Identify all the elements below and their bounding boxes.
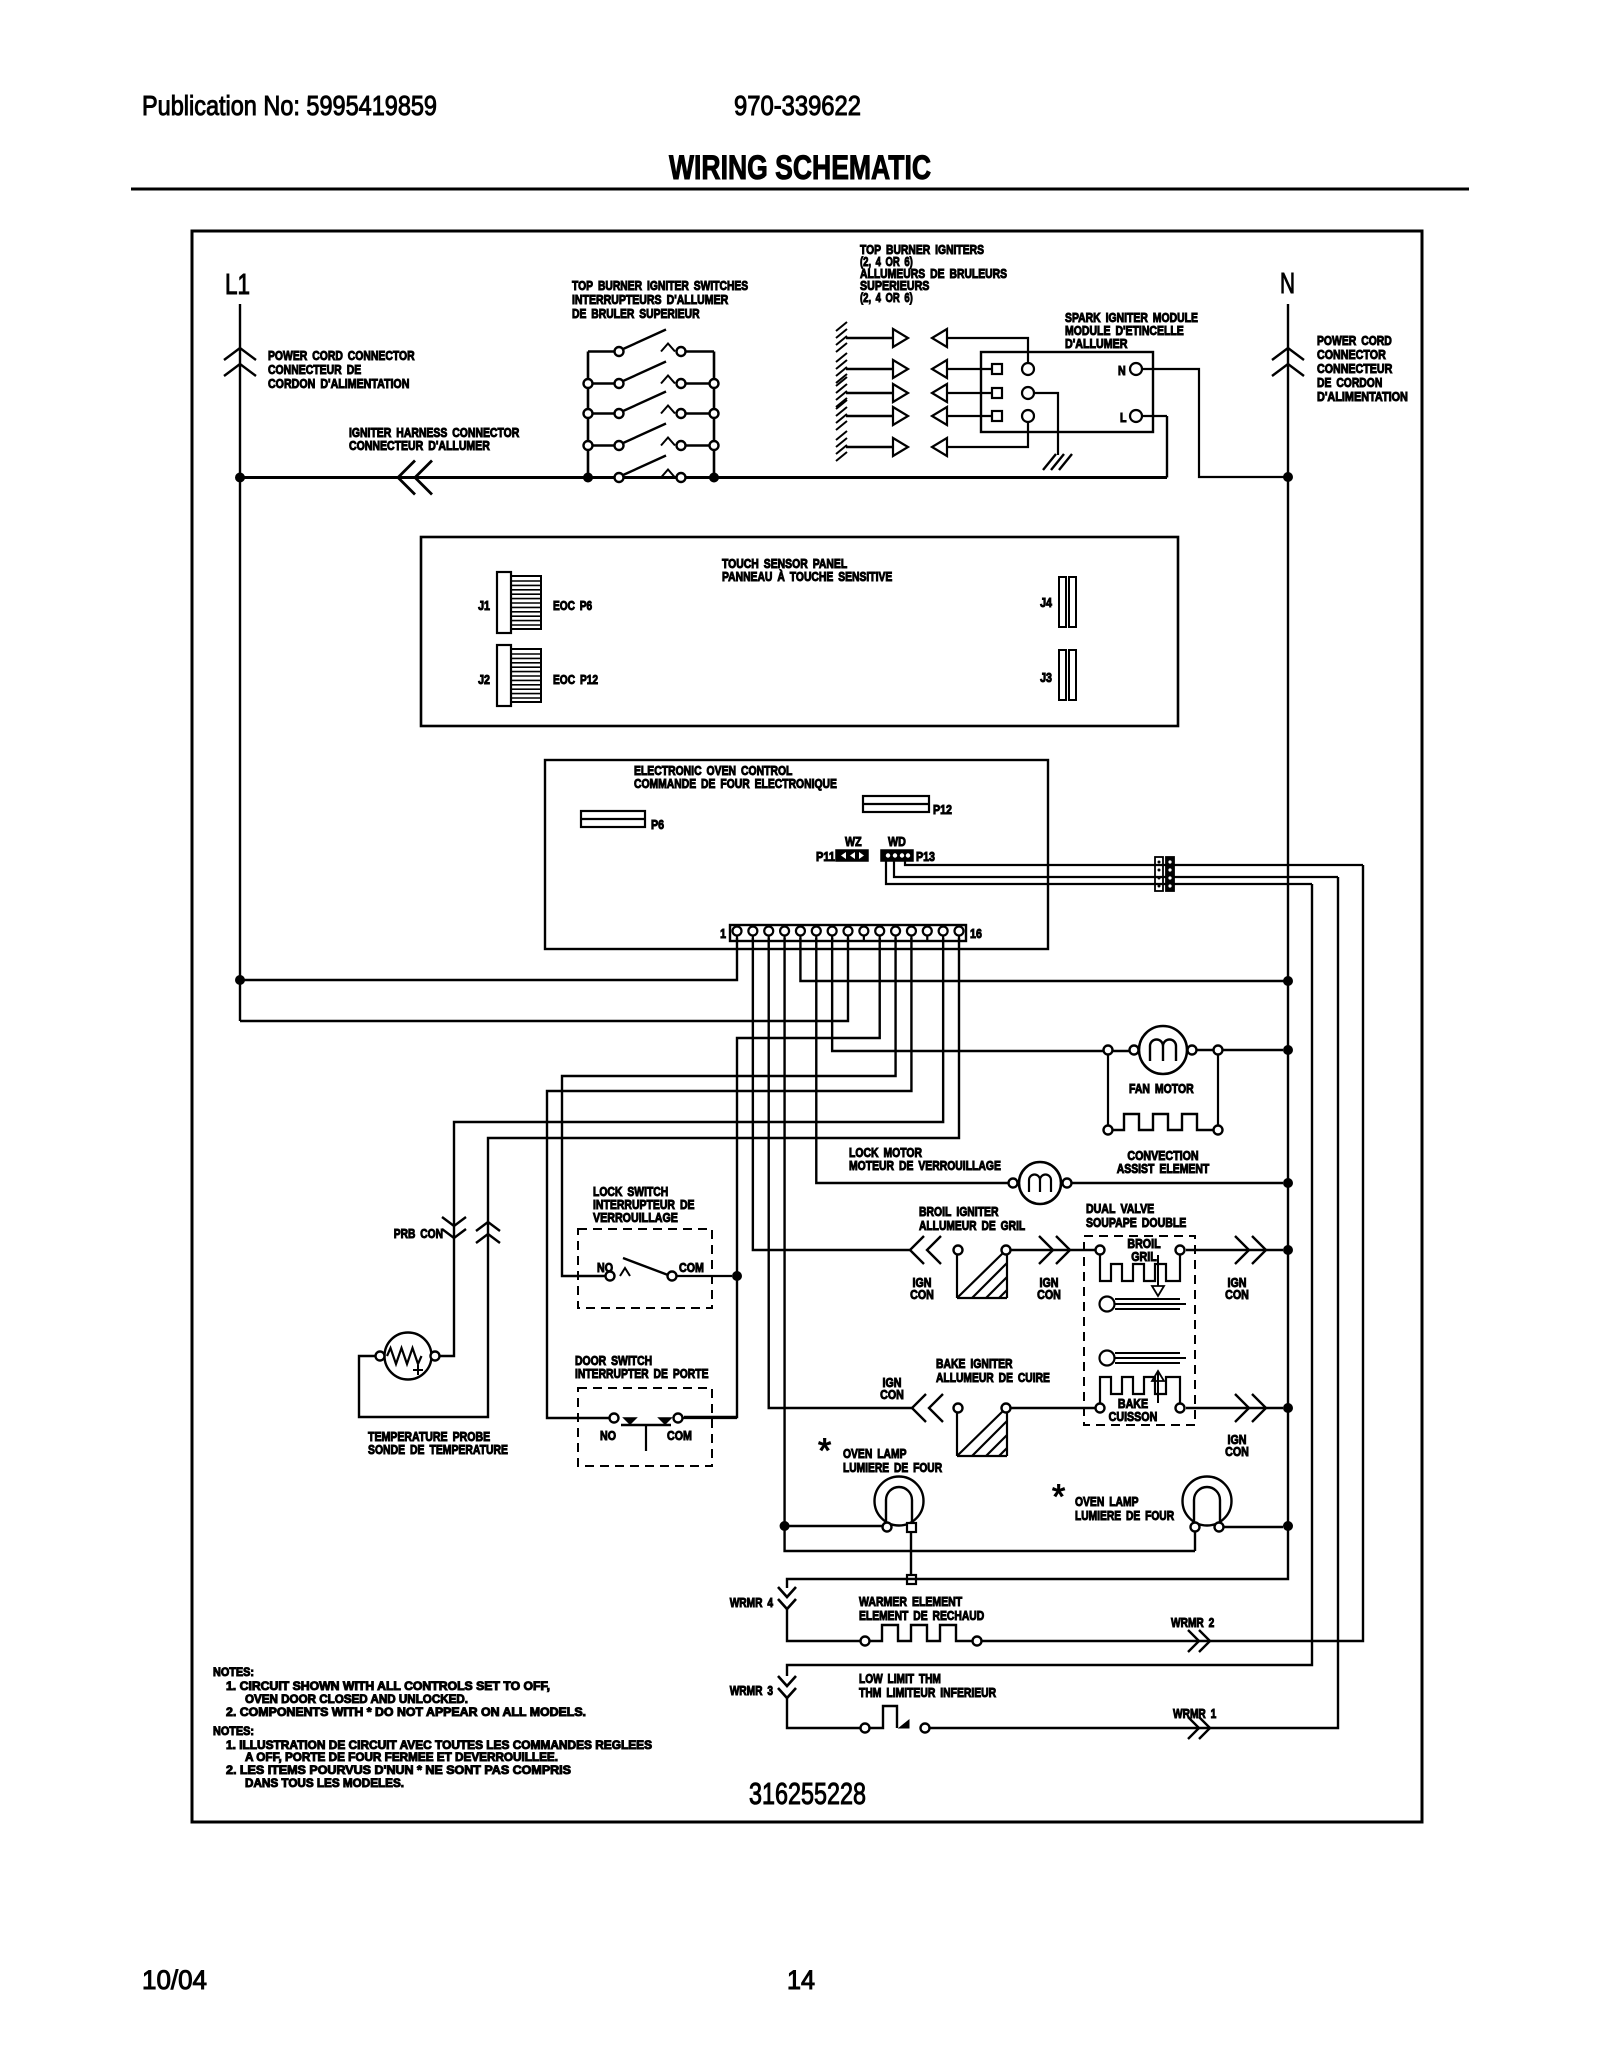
connector J3	[1059, 650, 1076, 700]
wire P13 pin to WRMR1 drop	[894, 861, 1338, 877]
low limit thermostat TH1	[861, 1724, 870, 1733]
broil solenoid	[1100, 1297, 1115, 1312]
wire pin14 to temperature probe	[440, 938, 943, 1356]
svg-text:POWER CORD CONNECTOR: POWER CORD CONNECTOR	[268, 348, 415, 363]
igniter harness connector chevrons	[398, 461, 415, 495]
oven lamp DS1	[875, 1477, 924, 1526]
svg-text:10/04: 10/04	[142, 1965, 207, 1995]
wire module N terminal to N line	[1142, 369, 1284, 477]
wire igniter harness bus L1 to L terminal	[240, 476, 1167, 479]
svg-text:COMMANDE DE FOUR ELECTRONIQ: COMMANDE DE FOUR ELECTRONIQUE	[634, 776, 837, 791]
fan motor M1	[1139, 1026, 1187, 1074]
probe connector chevrons PRB CON	[442, 1217, 466, 1226]
terminal strip pin 12	[907, 927, 916, 936]
svg-text:CON: CON	[1225, 1444, 1249, 1459]
broil igniter harness chevrons left	[910, 1236, 924, 1264]
svg-text:16: 16	[970, 926, 982, 941]
junction broil N	[1283, 1245, 1293, 1255]
svg-text:DE CORDON: DE CORDON	[1317, 375, 1382, 390]
junction lock COM on sense wire	[732, 1271, 742, 1281]
terminal strip pin 7	[828, 927, 837, 936]
module terminal square 1	[992, 364, 1002, 374]
convection assist element R1	[1104, 1126, 1113, 1135]
terminal strip pin 3	[764, 927, 773, 936]
junction N harness	[1283, 472, 1293, 482]
top burner igniter electrode E3	[836, 377, 847, 386]
top burner igniter electrode E5	[836, 431, 847, 440]
WRMR4 chevrons	[778, 1587, 796, 1597]
svg-text:CONNECTOR: CONNECTOR	[1317, 347, 1386, 362]
wire P13 pin to WRMR2 drop	[905, 861, 1363, 865]
bake igniter harness chevrons	[912, 1394, 926, 1422]
igniter return arrow A4	[932, 407, 947, 425]
svg-text:J3: J3	[1040, 670, 1052, 685]
svg-text:WRMR 2: WRMR 2	[1171, 1615, 1214, 1630]
svg-text:WIRING SCHEMATIC: WIRING SCHEMATIC	[669, 149, 931, 187]
svg-text:OVEN LAMP: OVEN LAMP	[1075, 1494, 1139, 1509]
svg-text:VERROUILLAGE: VERROUILLAGE	[593, 1210, 678, 1225]
wire L1 vertical	[239, 304, 241, 1021]
svg-text:WD: WD	[888, 834, 906, 849]
terminal strip pin 1	[733, 927, 742, 936]
terminal strip pin 15	[954, 927, 963, 936]
svg-text:N: N	[1280, 268, 1295, 300]
svg-text:CONNECTEUR DE: CONNECTEUR DE	[268, 362, 361, 377]
module terminal square 2	[992, 388, 1002, 398]
svg-text:P12: P12	[933, 802, 952, 817]
igniter switch S1	[588, 350, 614, 352]
temperature probe RT1	[385, 1333, 432, 1380]
svg-text:*: *	[1052, 1478, 1065, 1516]
svg-text:2. LES ITEMS POURVUS D'NUN * N: 2. LES ITEMS POURVUS D'NUN * NE SONT PAS…	[226, 1763, 571, 1777]
svg-text:Publication No: 5995419859: Publication No: 5995419859	[142, 90, 437, 121]
connector J4	[1059, 577, 1076, 627]
schematic border frame	[192, 231, 1422, 1822]
wire pin1 to L1 bus	[240, 938, 737, 980]
wire pin10 to lock-door sense	[684, 938, 880, 1417]
svg-text:NOTES:: NOTES:	[213, 1724, 254, 1738]
wire lamp2 to N	[1224, 1526, 1283, 1528]
junction pin4 lamp feed	[780, 1521, 790, 1531]
svg-text:1: 1	[720, 926, 726, 941]
svg-text:J1: J1	[478, 598, 490, 613]
wire pin3 to bake igniter row	[769, 938, 912, 1408]
svg-text:CUISSON: CUISSON	[1109, 1409, 1158, 1424]
connector P12	[863, 796, 929, 812]
top burner igniter electrode E2	[836, 353, 847, 362]
terminal strip pin 2	[748, 927, 757, 936]
broil chevrons mid	[1039, 1236, 1053, 1264]
bake igniter IG2	[954, 1404, 963, 1413]
top burner igniter electrode E4	[836, 400, 847, 409]
module terminal circle 3	[1022, 410, 1034, 422]
power cord connector N chevrons	[1272, 348, 1304, 360]
connector WD P13	[881, 850, 913, 861]
svg-text:EOC P6: EOC P6	[553, 598, 592, 613]
svg-text:EOC P12: EOC P12	[553, 672, 598, 687]
junction switch rail right on bus	[709, 473, 719, 483]
power cord connector L1 chevrons	[224, 348, 256, 360]
svg-text:BAKE IGNITER: BAKE IGNITER	[936, 1356, 1013, 1371]
bake valve element	[1096, 1404, 1105, 1413]
electronic oven control box	[545, 760, 1048, 949]
svg-text:L: L	[1120, 410, 1127, 425]
wire WRMR4 to warmer element	[787, 1608, 860, 1641]
wire pin15 to temperature probe return	[359, 938, 959, 1417]
svg-text:WRMR 1: WRMR 1	[1173, 1706, 1216, 1721]
svg-text:COM: COM	[679, 1260, 704, 1275]
module terminal square 3	[992, 411, 1002, 421]
svg-text:CON: CON	[910, 1287, 934, 1302]
wire pin4 to oven lamps	[785, 938, 1195, 1551]
wire broil valve to N	[1186, 1249, 1283, 1251]
svg-text:NOTES:: NOTES:	[213, 1665, 254, 1679]
terminal strip pin 11	[891, 927, 900, 936]
touch sensor panel box	[421, 537, 1178, 726]
igniter switch S2	[588, 382, 614, 384]
broil valve flow arrow	[1157, 1255, 1159, 1286]
svg-text:CON: CON	[880, 1387, 904, 1402]
svg-text:P13: P13	[916, 849, 935, 864]
WRMR2 chevrons	[1188, 1630, 1199, 1652]
module N terminal	[1130, 363, 1142, 375]
wire module L terminal stub	[1142, 415, 1167, 417]
svg-text:NO: NO	[600, 1428, 616, 1443]
svg-text:OVEN LAMP: OVEN LAMP	[843, 1446, 907, 1461]
wire igniter row5 to module circle3	[947, 423, 1028, 447]
wire igniter row1 to module circle1	[947, 338, 1028, 362]
module L terminal	[1130, 410, 1142, 422]
top burner igniter electrode E1	[836, 322, 847, 331]
junction L1 bus A	[235, 975, 245, 985]
junction bake N	[1283, 1403, 1293, 1413]
wire broil igniter to valve	[1011, 1249, 1095, 1251]
wire pin8 to L1 bus B	[239, 1020, 241, 1022]
svg-text:SOUPAPE DOUBLE: SOUPAPE DOUBLE	[1086, 1215, 1187, 1230]
igniter switch S4	[588, 444, 614, 446]
svg-text:PRB CON: PRB CON	[394, 1226, 443, 1241]
svg-text:MOTEUR DE VERROUILLAGE: MOTEUR DE VERROUILLAGE	[849, 1158, 1001, 1173]
terminal strip pin 5	[796, 927, 805, 936]
wire N vertical	[1287, 304, 1289, 1526]
module terminal circle 1	[1022, 363, 1034, 375]
junction convection tap right	[1214, 1046, 1223, 1055]
terminal strip pin 4	[780, 927, 789, 936]
wire lamp1 return drop	[910, 1532, 912, 1579]
switch block left rail	[587, 352, 590, 478]
wire lamp return bus	[787, 1526, 1288, 1588]
ground symbol	[1043, 454, 1056, 470]
svg-text:GRIL: GRIL	[1131, 1249, 1157, 1264]
lock switch contacts	[606, 1272, 615, 1281]
wire module circle2 to ground	[1034, 393, 1058, 455]
wire lamp1 feed	[785, 1525, 882, 1527]
svg-text:CON: CON	[1037, 1287, 1061, 1302]
wire pin7 to fan motor row	[832, 938, 1103, 1051]
lock motor M2	[1019, 1162, 1061, 1204]
wire pin11 to lock switch NO	[562, 938, 896, 1276]
svg-text:P6: P6	[651, 817, 664, 832]
EOC terminal strip	[730, 925, 966, 941]
svg-text:ALLUMEUR DE GRIL: ALLUMEUR DE GRIL	[919, 1218, 1025, 1233]
svg-text:DUAL VALVE: DUAL VALVE	[1086, 1201, 1154, 1216]
junction L1 harness bus	[235, 473, 245, 483]
igniter return arrow A1	[932, 329, 947, 347]
wire pin5 to N	[800, 938, 1288, 981]
bake chevrons right	[1235, 1394, 1249, 1422]
spark igniter module box	[981, 352, 1153, 432]
terminal strip pin 8	[843, 927, 852, 936]
terminal strip pin 6	[812, 927, 821, 936]
junction fan row N	[1283, 1045, 1293, 1055]
svg-text:LUMIERE DE FOUR: LUMIERE DE FOUR	[1075, 1508, 1175, 1523]
svg-text:A OFF, PORTE DE FOUR FERMEE ET: A OFF, PORTE DE FOUR FERMEE ET DEVERROUI…	[245, 1750, 558, 1764]
svg-text:TOP BURNER IGNITER SWITCHES: TOP BURNER IGNITER SWITCHES	[572, 278, 748, 293]
svg-text:N: N	[1118, 363, 1126, 378]
svg-text:SONDE DE TEMPERATURE: SONDE DE TEMPERATURE	[368, 1442, 508, 1457]
igniter switch S5	[588, 476, 614, 478]
junction switch rail left on bus	[583, 473, 593, 483]
igniter return arrow A3	[932, 384, 947, 402]
svg-text:CON: CON	[1225, 1287, 1249, 1302]
wire igniter row2 to module square1	[947, 368, 992, 370]
broil igniter IG1	[954, 1246, 963, 1255]
svg-text:INTERRUPTEURS D'ALLUMER: INTERRUPTEURS D'ALLUMER	[572, 292, 729, 307]
svg-text:14: 14	[787, 1965, 815, 1995]
svg-text:WARMER ELEMENT: WARMER ELEMENT	[859, 1594, 962, 1609]
wire pin12 to door switch NO	[547, 938, 911, 1418]
svg-text:DANS TOUS LES MODELES.: DANS TOUS LES MODELES.	[245, 1776, 404, 1790]
wire pin2 to broil igniter row	[753, 938, 910, 1250]
connector J2	[497, 645, 541, 706]
svg-text:LOW LIMIT THM: LOW LIMIT THM	[859, 1671, 941, 1686]
svg-text:CONNECTEUR: CONNECTEUR	[1317, 361, 1393, 376]
svg-text:OVEN DOOR CLOSED AND UNLOCKED.: OVEN DOOR CLOSED AND UNLOCKED.	[245, 1692, 468, 1706]
harness connector blocks	[1155, 857, 1163, 891]
warmer element R2	[861, 1637, 870, 1646]
svg-text:J4: J4	[1040, 595, 1053, 610]
connector P6	[581, 811, 645, 827]
svg-text:1. CIRCUIT SHOWN WITH ALL CONT: 1. CIRCUIT SHOWN WITH ALL CONTROLS SET T…	[226, 1679, 550, 1693]
terminal strip pin 13	[923, 927, 932, 936]
connector J1	[497, 572, 541, 633]
svg-text:WRMR 3: WRMR 3	[730, 1683, 773, 1698]
svg-text:D'ALIMENTATION: D'ALIMENTATION	[1317, 389, 1408, 404]
wire igniter row3 to module square2	[947, 392, 992, 394]
terminal strip pin 10	[875, 927, 884, 936]
svg-text:ELEMENT DE RECHAUD: ELEMENT DE RECHAUD	[859, 1608, 984, 1623]
svg-text:P11: P11	[816, 849, 835, 864]
wire pin6 to lock motor row	[816, 938, 1008, 1183]
junction convection tap left	[1104, 1046, 1113, 1055]
door switch box	[578, 1388, 712, 1466]
title rule	[131, 188, 1469, 191]
igniter return arrow A2	[932, 360, 947, 378]
terminal strip pin 9	[859, 927, 868, 936]
svg-text:INTERRUPTER DE PORTE: INTERRUPTER DE PORTE	[575, 1366, 709, 1381]
door switch contacts	[610, 1414, 619, 1423]
bake solenoid	[1100, 1351, 1115, 1366]
wire lamp bus to WRMR3	[787, 884, 1312, 1676]
igniter switch S3	[588, 412, 614, 414]
wire bake igniter to valve	[1011, 1407, 1095, 1409]
junction lock motor N	[1283, 1178, 1293, 1188]
svg-text:DE BRULER SUPERIEUR: DE BRULER SUPERIEUR	[572, 306, 700, 321]
broil chevrons right	[1235, 1236, 1249, 1264]
svg-text:WZ: WZ	[845, 834, 862, 849]
svg-text:L1: L1	[225, 269, 250, 301]
wire lamp2 feed drop	[1194, 1532, 1196, 1551]
terminal strip pin 14	[939, 927, 948, 936]
WRMR1 chevrons	[1188, 1717, 1199, 1739]
svg-text:FAN MOTOR: FAN MOTOR	[1129, 1081, 1194, 1096]
svg-text:970-339622: 970-339622	[734, 90, 861, 121]
svg-text:BROIL IGNITER: BROIL IGNITER	[919, 1204, 999, 1219]
junction lamps N	[1283, 1521, 1293, 1531]
svg-text:*: *	[818, 1432, 831, 1470]
svg-text:POWER CORD: POWER CORD	[1317, 333, 1392, 348]
wire low limit to WRMR1 riser	[930, 877, 1338, 1728]
switch block right rail	[713, 352, 716, 478]
svg-text:LUMIERE DE FOUR: LUMIERE DE FOUR	[843, 1460, 943, 1475]
wire convection element taps	[1107, 1055, 1109, 1126]
svg-text:CORDON D'ALIMENTATION: CORDON D'ALIMENTATION	[268, 376, 409, 391]
svg-text:(2, 4 OR 6): (2, 4 OR 6)	[860, 290, 913, 305]
lock switch box	[578, 1229, 712, 1308]
svg-text:COM: COM	[667, 1428, 692, 1443]
svg-text:2. COMPONENTS WITH * DO NOT AP: 2. COMPONENTS WITH * DO NOT APPEAR ON AL…	[226, 1705, 586, 1719]
svg-text:PANNEAU À TOUCHE SENSITIVE: PANNEAU À TOUCHE SENSITIVE	[722, 569, 893, 584]
svg-text:THM LIMITEUR INFERIEUR: THM LIMITEUR INFERIEUR	[859, 1685, 997, 1700]
dual valve box	[1084, 1236, 1195, 1425]
junction pin5 N	[1283, 976, 1293, 986]
oven lamp DS2	[1183, 1477, 1232, 1526]
WRMR3 chevrons	[778, 1676, 796, 1686]
svg-text:WRMR 4: WRMR 4	[730, 1595, 774, 1610]
svg-text:J2: J2	[478, 672, 490, 687]
wire P13 pin to WRMR3 drop	[886, 861, 1312, 884]
svg-text:316255228: 316255228	[749, 1776, 866, 1811]
wire bake valve to N	[1186, 1407, 1283, 1409]
bake valve flow arrow	[1157, 1372, 1159, 1403]
svg-text:CONNECTEUR D'ALLUMER: CONNECTEUR D'ALLUMER	[349, 438, 490, 453]
svg-text:ALLUMEUR DE CUIRE: ALLUMEUR DE CUIRE	[936, 1370, 1050, 1385]
svg-text:ASSIST ELEMENT: ASSIST ELEMENT	[1117, 1161, 1210, 1176]
igniter return arrow A5	[932, 438, 947, 456]
module terminal circle 2	[1022, 387, 1034, 399]
wire igniter row4 to module square3	[947, 415, 992, 417]
wire warmer element to WRMR2 riser	[982, 865, 1363, 1641]
svg-text:D'ALLUMER: D'ALLUMER	[1065, 336, 1128, 351]
broil valve element	[1096, 1246, 1105, 1255]
wire WRMR3 to low limit	[787, 1696, 860, 1728]
